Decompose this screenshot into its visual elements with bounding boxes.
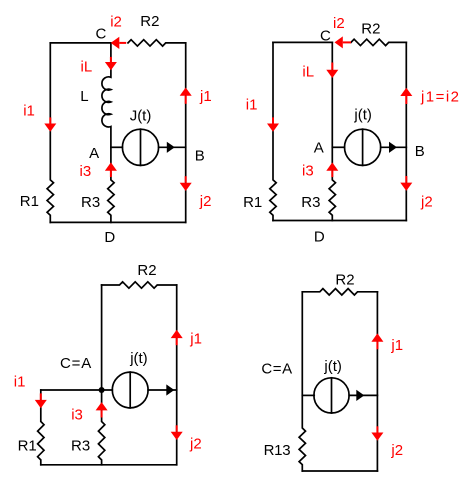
node C=A junction dot	[99, 387, 105, 393]
svg-text:j2: j2	[420, 193, 433, 210]
arrow i1 (red, down)	[267, 124, 279, 132]
svg-text:R1: R1	[243, 194, 262, 211]
svg-text:A: A	[314, 140, 324, 157]
arrow i1 (red, down)	[35, 400, 47, 408]
wire right vertical	[176, 285, 178, 465]
wire horizontal to current source	[41, 389, 113, 391]
resistor R2 (top-right circuit) zigzag	[351, 39, 406, 45]
svg-text:R3: R3	[81, 194, 100, 211]
current source j(t) circle	[314, 378, 349, 413]
arrow j1 (red, up)	[171, 330, 183, 338]
svg-text:i1: i1	[246, 97, 258, 114]
svg-text:j(t): j(t)	[129, 350, 148, 367]
wire left vertical with resistor R13	[299, 292, 305, 471]
svg-text:iL: iL	[81, 58, 93, 75]
svg-text:j1: j1	[189, 331, 202, 348]
svg-text:i3: i3	[302, 163, 314, 180]
arrow j2 (red, down)	[180, 183, 192, 191]
svg-text:B: B	[195, 148, 205, 165]
svg-text:i1: i1	[14, 373, 26, 390]
svg-text:A: A	[89, 145, 99, 162]
svg-text:i2: i2	[333, 15, 345, 32]
svg-text:j2: j2	[189, 435, 202, 452]
svg-text:R1: R1	[18, 438, 37, 455]
wire node A to current source	[332, 146, 344, 148]
arrow j2 (red, down)	[400, 183, 412, 191]
wire mid vertical with resistor R3	[329, 42, 335, 220]
wire left rail with resistor R1	[47, 43, 53, 223]
wire mid vertical upper + inductor L + resistor R3	[102, 43, 114, 223]
wire bottom	[50, 221, 185, 223]
svg-text:C=A: C=A	[261, 361, 292, 378]
current source j(t) circle	[345, 129, 381, 165]
svg-text:j1: j1	[390, 337, 403, 354]
svg-text:j(t): j(t)	[353, 107, 372, 124]
arrow i2 (red, pointing left into C)	[335, 36, 343, 48]
svg-text:R2: R2	[137, 262, 156, 279]
svg-text:j1: j1	[199, 88, 212, 105]
wire left rail with resistor R1	[270, 42, 276, 220]
wire bottom	[41, 464, 177, 466]
wire current source to right rail with black arrow	[159, 146, 186, 148]
wire bottom	[273, 220, 406, 222]
arrow i2 (red, pointing left into C)	[111, 37, 120, 49]
svg-text:iL: iL	[302, 64, 314, 81]
arrow i3 (red, up)	[105, 162, 117, 170]
arrow i1 (red, down)	[44, 124, 56, 132]
svg-text:J(t): J(t)	[130, 108, 152, 125]
svg-text:i1: i1	[23, 103, 35, 120]
wire current source to right vertical with black arrow	[349, 394, 377, 396]
svg-text:j2: j2	[199, 193, 212, 210]
svg-text:R1: R1	[20, 193, 39, 210]
wire horizontal to current source	[302, 394, 314, 396]
wire right vertical	[376, 292, 378, 471]
wire current source to right vertical with black arrow	[148, 389, 177, 391]
svg-text:R3: R3	[71, 438, 90, 455]
svg-text:i3: i3	[80, 163, 92, 180]
wire top-left: left rail top segment C to left corner	[50, 42, 111, 44]
wire top with resistor R2	[102, 282, 177, 288]
wire current source to right rail with black arrow	[381, 146, 407, 148]
svg-text:i3: i3	[71, 406, 83, 423]
arrow j2 (red, down)	[171, 432, 183, 440]
arrow i3 (red, up)	[326, 162, 338, 170]
arrow j2 (red, down)	[371, 433, 383, 441]
svg-text:C: C	[320, 28, 331, 45]
wire left loop vertical with resistor R3	[98, 285, 104, 465]
arrow i3 (red, up)	[96, 402, 108, 410]
svg-text:j2: j2	[390, 442, 403, 459]
svg-text:j1=i2: j1=i2	[420, 88, 459, 105]
wire node A to current source	[111, 146, 123, 148]
arrow iL (red, down)	[326, 70, 338, 78]
svg-text:D: D	[104, 229, 115, 246]
wire right rail	[405, 42, 407, 220]
svg-text:D: D	[314, 229, 325, 246]
svg-text:R2: R2	[140, 13, 159, 30]
svg-text:R2: R2	[361, 21, 380, 38]
svg-text:R3: R3	[301, 194, 320, 211]
svg-text:j(t): j(t)	[323, 358, 342, 375]
svg-text:C=A: C=A	[60, 355, 91, 372]
svg-text:B: B	[415, 143, 425, 160]
wire bottom	[302, 470, 377, 472]
arrow j1 (red, up)	[180, 88, 192, 96]
arrow iL (red, down)	[105, 62, 117, 70]
arrow j1 (red, up)	[400, 88, 412, 96]
wire top	[273, 41, 332, 43]
svg-text:C: C	[96, 26, 107, 43]
svg-text:i2: i2	[110, 13, 122, 30]
svg-text:L: L	[80, 88, 88, 105]
arrow j1 (red, up)	[371, 333, 383, 341]
wire right rail	[185, 43, 187, 223]
current source j(t) circle	[112, 372, 148, 408]
resistor R2 (top-left circuit) zigzag	[128, 40, 186, 46]
svg-text:R2: R2	[335, 271, 354, 288]
wire left outer vertical with resistor R1	[38, 390, 44, 465]
svg-text:R13: R13	[264, 442, 291, 459]
current source J(t) circle	[122, 129, 158, 165]
wire top with resistor R2	[302, 289, 377, 295]
